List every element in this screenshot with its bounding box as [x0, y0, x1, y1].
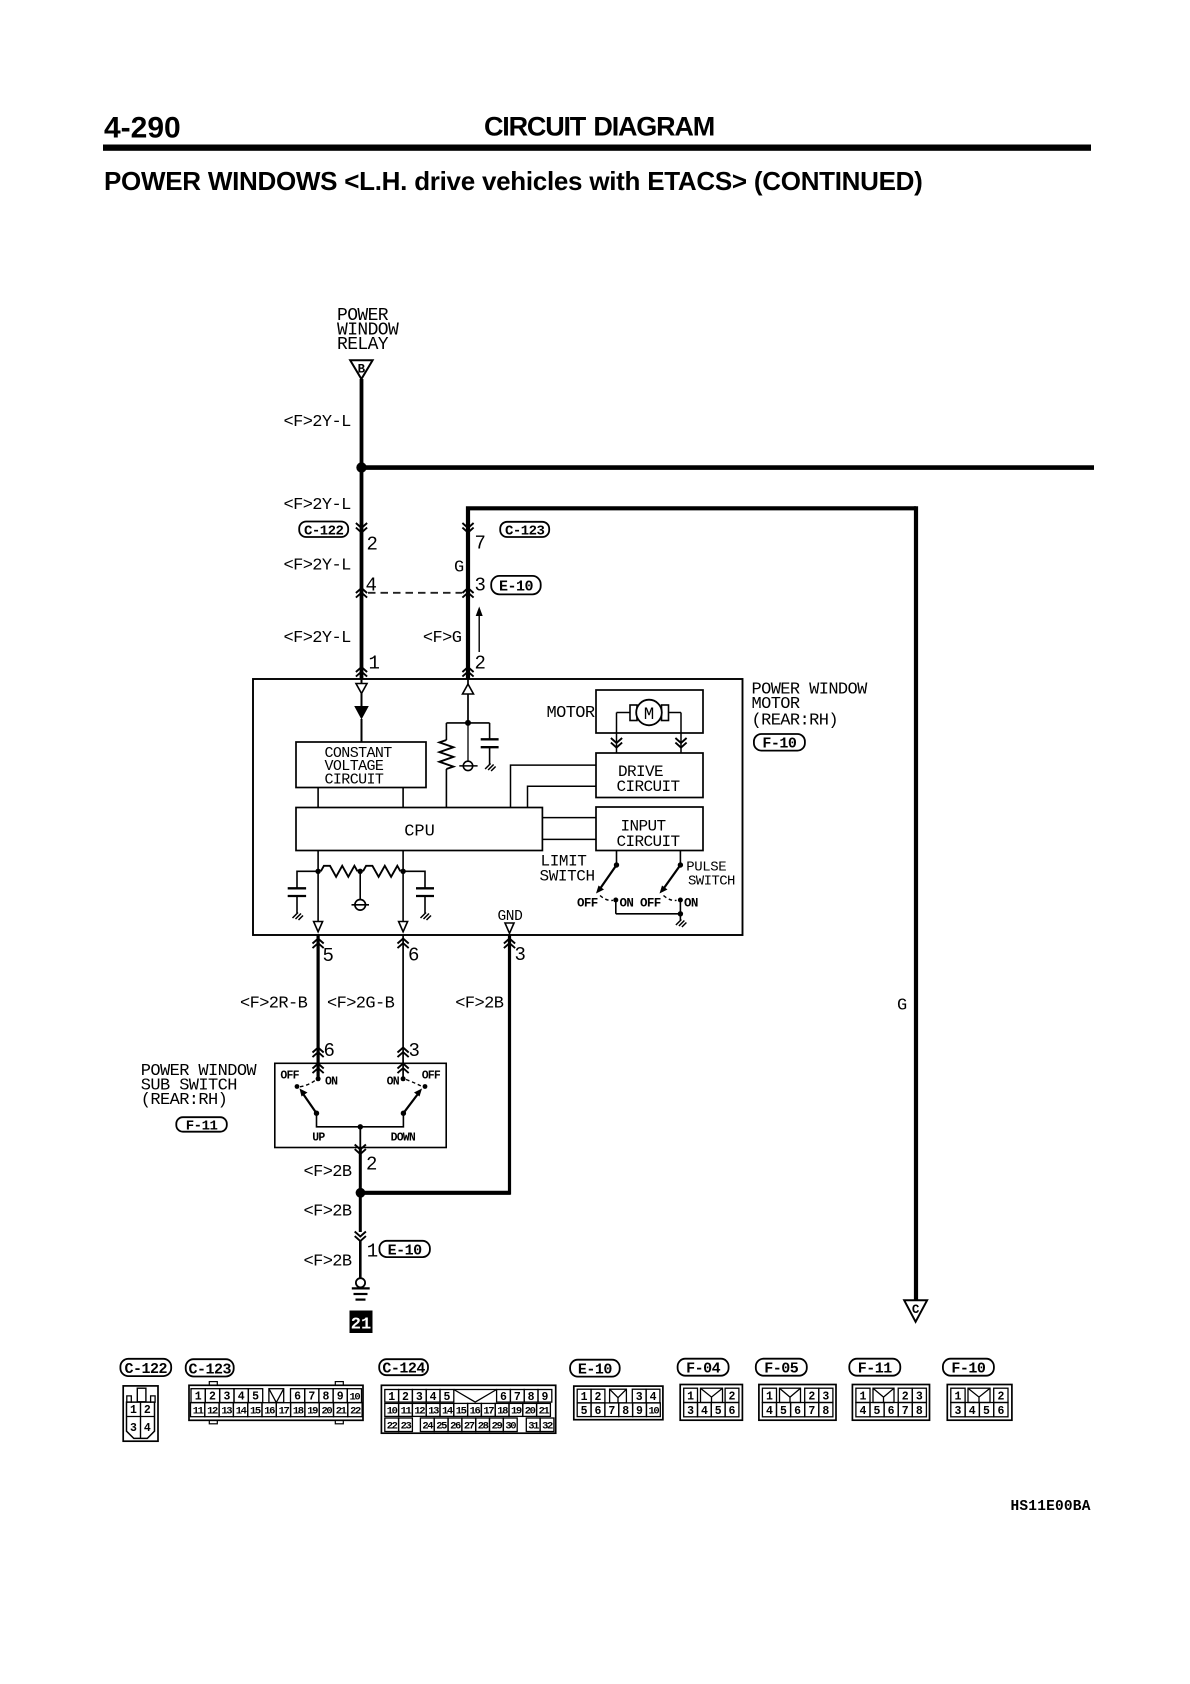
svg-text:5: 5 [715, 1405, 722, 1418]
connector F-04 pinout [680, 1385, 742, 1421]
connector C-122 label [299, 522, 348, 540]
wire CPU to drive 2 [528, 786, 597, 807]
svg-text:1: 1 [954, 1391, 961, 1404]
exit arrow pin5 [314, 922, 323, 932]
svg-text:19: 19 [307, 1406, 318, 1418]
svg-text:22: 22 [350, 1406, 361, 1418]
connector F-11 label [176, 1117, 227, 1134]
svg-text:<F>2Y-L: <F>2Y-L [284, 557, 352, 576]
label (F)2G-B [327, 995, 395, 1014]
svg-text:3: 3 [475, 575, 486, 597]
svg-text:8: 8 [528, 1391, 535, 1404]
svg-text:11: 11 [401, 1406, 412, 1418]
svg-text:4: 4 [238, 1391, 245, 1404]
terminal B triangle [350, 360, 372, 379]
wire CPU to input 2 [542, 838, 596, 840]
pin3 number [515, 944, 526, 966]
sub switch up contact node [316, 1076, 321, 1081]
power window motor unit box [253, 679, 743, 935]
connector C-123 label bottom [186, 1359, 234, 1378]
svg-text:C-122: C-122 [304, 523, 344, 539]
svg-text:28: 28 [478, 1421, 489, 1433]
terminal C triangle [904, 1300, 927, 1322]
svg-text:2: 2 [209, 1391, 216, 1404]
svg-text:24: 24 [422, 1421, 433, 1433]
svg-text:10: 10 [349, 1391, 360, 1403]
svg-text:16: 16 [470, 1406, 481, 1418]
node R/C [446, 720, 489, 726]
svg-text:4: 4 [701, 1405, 708, 1418]
svg-text:2: 2 [144, 1404, 151, 1417]
svg-text:1: 1 [130, 1404, 137, 1417]
sub switch pin6 marker [313, 1048, 324, 1074]
svg-text:21: 21 [539, 1406, 550, 1418]
power window relay label [337, 306, 399, 355]
entry arrow pin2 [463, 679, 474, 723]
sub switch down contact node [401, 1076, 406, 1081]
label (F)2B mid [304, 1203, 352, 1222]
drawing number [1011, 1499, 1091, 1515]
direction arrow up [476, 607, 483, 653]
wire 2R-B [317, 935, 320, 1079]
svg-text:7: 7 [308, 1391, 315, 1404]
motor M1 [617, 700, 682, 726]
CPU right lead [400, 851, 405, 922]
wire CPU to input 1 [542, 817, 596, 819]
pin6 marker [398, 939, 409, 949]
bus wire G top [468, 508, 916, 679]
svg-text:2: 2 [808, 1391, 815, 1404]
svg-text:B: B [358, 363, 366, 377]
motor leads [617, 713, 682, 754]
connector F-11 pinout [852, 1385, 929, 1421]
svg-text:C: C [912, 1303, 920, 1317]
label (F)2B upper [304, 1163, 352, 1182]
svg-text:15: 15 [250, 1406, 261, 1418]
svg-text:3: 3 [223, 1391, 230, 1404]
svg-text:26: 26 [450, 1421, 461, 1433]
sub switch output wire [359, 1127, 361, 1148]
sub switch pin3 marker [398, 1048, 409, 1074]
svg-text:2: 2 [997, 1391, 1004, 1404]
reference node circle [459, 723, 477, 771]
DOWN label [391, 1132, 416, 1145]
connector C-123 label [500, 522, 549, 540]
pin6 number [408, 945, 419, 967]
svg-text:32: 32 [542, 1421, 553, 1433]
svg-text:21: 21 [336, 1406, 347, 1418]
svg-text:1: 1 [369, 653, 380, 675]
svg-text:F-04: F-04 [686, 1361, 721, 1378]
sub switch OFF label left [280, 1070, 299, 1083]
svg-text:ON: ON [387, 1076, 400, 1089]
svg-text:2: 2 [475, 653, 486, 675]
svg-text:1: 1 [195, 1391, 202, 1404]
svg-text:OFF: OFF [640, 897, 661, 911]
svg-text:20: 20 [525, 1406, 536, 1418]
resistor R2 [321, 866, 358, 877]
svg-text:1: 1 [388, 1391, 395, 1404]
wire to body ground [359, 1241, 362, 1278]
pin2 marker below sub switch [355, 1145, 366, 1155]
dashed connector link [368, 592, 462, 594]
pin 2 [367, 534, 378, 556]
svg-text:6: 6 [794, 1405, 801, 1418]
svg-text:7: 7 [808, 1405, 815, 1418]
connector C-124 pinout [381, 1385, 555, 1433]
svg-text:6: 6 [729, 1405, 736, 1418]
pulse switch SW2 [660, 851, 684, 914]
motor lead markers [611, 738, 687, 748]
svg-text:22: 22 [387, 1421, 398, 1433]
svg-text:29: 29 [492, 1421, 503, 1433]
svg-text:<F>2R-B: <F>2R-B [240, 995, 308, 1014]
svg-text:6: 6 [294, 1391, 301, 1404]
svg-text:4: 4 [144, 1422, 151, 1435]
svg-text:<F>2B: <F>2B [455, 995, 503, 1014]
svg-text:F-10: F-10 [951, 1361, 986, 1378]
connector E-10 marker right [462, 588, 473, 598]
pin5 number [323, 945, 334, 967]
junction node 2B [356, 1188, 366, 1198]
svg-text:C-123: C-123 [505, 523, 545, 539]
connector F-10 label [754, 734, 805, 753]
sub switch box [275, 1063, 446, 1147]
pin 7 [475, 533, 486, 555]
svg-text:6: 6 [888, 1405, 895, 1418]
label G [454, 559, 464, 578]
svg-text:4: 4 [766, 1405, 773, 1418]
svg-text:8: 8 [916, 1405, 923, 1418]
svg-text:4: 4 [969, 1405, 976, 1418]
wire into constant voltage circuit [361, 679, 363, 742]
svg-text:G: G [897, 997, 907, 1016]
resistor R3 [358, 866, 401, 877]
svg-text:30: 30 [505, 1421, 516, 1433]
pin 2 motor [475, 653, 486, 675]
svg-text:<F>2Y-L: <F>2Y-L [284, 496, 352, 515]
svg-text:5: 5 [983, 1405, 990, 1418]
svg-text:3: 3 [130, 1422, 137, 1435]
header rule [103, 145, 1091, 151]
svg-text:G: G [454, 559, 464, 578]
svg-text:OFF: OFF [280, 1070, 299, 1083]
svg-text:6: 6 [595, 1405, 602, 1418]
connector E-10 label [491, 576, 541, 596]
connector E-10 pinout [574, 1386, 663, 1420]
svg-text:<F>2B: <F>2B [304, 1163, 352, 1182]
svg-text:HS11E00BA: HS11E00BA [1011, 1499, 1091, 1515]
wire 2B upper [359, 1148, 362, 1193]
constant voltage circuit box [296, 742, 426, 789]
svg-text:4-290: 4-290 [104, 112, 181, 145]
motor box [596, 690, 703, 733]
svg-text:F-11: F-11 [186, 1119, 218, 1135]
pulse switch OFF label [640, 897, 661, 911]
wire 2Y-L seg2 [360, 468, 364, 680]
sub switch ON label left [325, 1076, 338, 1089]
title POWER WINDOWS [104, 166, 923, 196]
svg-text:5: 5 [252, 1391, 259, 1404]
svg-text:6: 6 [408, 945, 419, 967]
box entry marker pin1 [356, 667, 367, 677]
label (F)2B bottom [304, 1253, 352, 1272]
svg-text:OFF: OFF [422, 1070, 441, 1083]
connector C-122 marker [356, 523, 367, 533]
svg-text:9: 9 [541, 1391, 548, 1404]
reference node circle 2 [352, 871, 370, 910]
right G bus down [914, 506, 918, 1300]
svg-text:4: 4 [859, 1405, 866, 1418]
svg-text:ON: ON [620, 897, 634, 911]
limit switch OFF label [577, 897, 598, 911]
svg-text:27: 27 [464, 1421, 475, 1433]
input circuit box [596, 807, 703, 851]
connector F-04 label bottom [678, 1359, 729, 1378]
svg-text:12: 12 [414, 1406, 425, 1418]
svg-text:9: 9 [337, 1391, 344, 1404]
connector C-123 pinout [189, 1382, 363, 1424]
label (F)G [423, 629, 462, 648]
connector C-122 pinout [123, 1386, 158, 1441]
connector F-05 pinout [759, 1385, 836, 1421]
svg-text:CIRCUIT DIAGRAM: CIRCUIT DIAGRAM [484, 112, 714, 142]
connector E-10 marker bottom [355, 1232, 366, 1242]
box entry marker pin2 [462, 667, 473, 677]
sub switch pin6 number [324, 1040, 335, 1062]
GND label [498, 909, 523, 925]
connector C-124 label bottom [379, 1359, 428, 1377]
svg-text:2: 2 [729, 1391, 736, 1404]
connector E-10 marker left [356, 588, 367, 598]
connector F-10 label bottom [943, 1359, 994, 1378]
svg-text:6: 6 [500, 1391, 507, 1404]
limit switch caption [540, 853, 595, 886]
exit arrow pin6 [399, 922, 408, 932]
svg-text:17: 17 [279, 1406, 290, 1418]
header CIRCUIT DIAGRAM [484, 112, 714, 142]
label (F)2R-B [240, 995, 308, 1014]
svg-text:7: 7 [475, 533, 486, 555]
pulse switch caption [686, 860, 735, 890]
wire 2B lower [359, 1193, 362, 1232]
bus wire to right edge [362, 465, 1095, 470]
connector F-05 label bottom [756, 1359, 807, 1378]
svg-text:(REAR:RH): (REAR:RH) [141, 1091, 227, 1110]
svg-text:5: 5 [323, 945, 334, 967]
svg-text:15: 15 [456, 1406, 467, 1418]
svg-text:ON: ON [325, 1076, 338, 1089]
power window motor caption [752, 681, 869, 731]
CPU box [296, 808, 542, 851]
svg-text:SWITCH: SWITCH [540, 868, 595, 886]
connector C-122 label bottom [120, 1359, 171, 1378]
connector F-10 pinout [947, 1385, 1012, 1421]
svg-text:<F>2G-B: <F>2G-B [327, 995, 395, 1014]
svg-text:2: 2 [902, 1391, 909, 1404]
svg-text:CIRCUIT: CIRCUIT [617, 778, 680, 796]
svg-text:7: 7 [608, 1405, 615, 1418]
svg-text:RELAY: RELAY [337, 335, 389, 355]
svg-text:F-10: F-10 [762, 736, 797, 753]
wire 2Y-L from relay [360, 379, 364, 468]
svg-text:OFF: OFF [577, 897, 598, 911]
svg-text:16: 16 [264, 1406, 275, 1418]
label (F)2Y-L seg2 [284, 496, 352, 515]
svg-text:10: 10 [648, 1406, 659, 1418]
svg-text:4: 4 [430, 1391, 437, 1404]
label (F)2B gnd [455, 995, 503, 1014]
svg-text:3: 3 [822, 1391, 829, 1404]
svg-text:18: 18 [293, 1406, 304, 1418]
exit arrow GND [505, 923, 514, 933]
svg-text:9: 9 [636, 1405, 643, 1418]
svg-text:<F>2Y-L: <F>2Y-L [284, 413, 352, 432]
svg-text:CIRCUIT: CIRCUIT [325, 772, 384, 789]
label (F)2Y-L seg4 [284, 629, 352, 648]
svg-text:6: 6 [997, 1405, 1004, 1418]
svg-text:11: 11 [193, 1406, 204, 1418]
svg-text:14: 14 [236, 1406, 247, 1418]
svg-text:F-11: F-11 [858, 1361, 893, 1378]
svg-text:<F>2Y-L: <F>2Y-L [284, 629, 352, 648]
pin5 marker [313, 939, 324, 949]
svg-text:CIRCUIT: CIRCUIT [617, 833, 680, 851]
wire 2B gnd [508, 935, 511, 1195]
svg-text:3: 3 [954, 1405, 961, 1418]
svg-text:8: 8 [323, 1391, 330, 1404]
svg-text:ON: ON [684, 897, 698, 911]
bus 2B to gnd wire [361, 1191, 511, 1195]
entry arrow pin1 [356, 684, 367, 694]
sub switch right arm [401, 1080, 428, 1116]
wires CVC to CPU [318, 788, 403, 808]
svg-text:3: 3 [409, 1040, 420, 1062]
motor caption [547, 704, 595, 723]
body ground symbol [352, 1278, 370, 1299]
svg-text:<F>2B: <F>2B [304, 1253, 352, 1272]
svg-text:5: 5 [581, 1405, 588, 1418]
sub switch OFF label right [422, 1070, 441, 1083]
CPU left lead [315, 851, 320, 922]
svg-text:20: 20 [321, 1406, 332, 1418]
svg-text:3: 3 [687, 1405, 694, 1418]
sub switch pin3 number [409, 1040, 420, 1062]
svg-text:(REAR:RH): (REAR:RH) [752, 712, 838, 731]
svg-text:<F>G: <F>G [423, 629, 462, 648]
chassis ground C1 [485, 764, 496, 772]
pulse switch ON label [684, 897, 698, 911]
pin2 number below sub switch [366, 1154, 377, 1176]
svg-text:1: 1 [687, 1391, 694, 1404]
svg-text:17: 17 [483, 1406, 494, 1418]
connector F-11 label bottom [849, 1359, 900, 1378]
svg-text:F-05: F-05 [764, 1361, 799, 1378]
label G right [897, 997, 907, 1016]
svg-text:7: 7 [902, 1405, 909, 1418]
svg-text:5: 5 [874, 1405, 881, 1418]
svg-text:C-124: C-124 [382, 1361, 425, 1378]
svg-text:10: 10 [387, 1406, 398, 1418]
svg-text:13: 13 [221, 1406, 232, 1418]
label (F)2Y-L seg1 [284, 413, 352, 432]
svg-text:31: 31 [528, 1421, 539, 1433]
page number 4-290 [104, 112, 181, 145]
svg-text:E-10: E-10 [578, 1362, 613, 1379]
svg-text:MOTOR: MOTOR [547, 704, 595, 723]
limit switch ON label [620, 897, 634, 911]
svg-text:<F>2B: <F>2B [304, 1203, 352, 1222]
svg-text:7: 7 [514, 1391, 521, 1404]
svg-text:CPU: CPU [404, 823, 435, 842]
pin3 marker [504, 939, 515, 949]
svg-text:13: 13 [428, 1406, 439, 1418]
switch common wire [616, 911, 683, 920]
svg-text:8: 8 [622, 1405, 629, 1418]
svg-text:3: 3 [416, 1391, 423, 1404]
capacitor C1 [481, 723, 499, 765]
ground ref 21 [350, 1311, 373, 1335]
capacitor C2 [288, 871, 318, 913]
capacitor C3 [403, 871, 434, 913]
chassis ground switches [676, 920, 687, 928]
svg-text:18: 18 [497, 1406, 508, 1418]
junction node [356, 462, 366, 472]
pin 4 [366, 575, 377, 597]
pin 1 [369, 653, 380, 675]
svg-text:5: 5 [780, 1405, 787, 1418]
wire 2G-B [402, 935, 404, 1079]
svg-text:1: 1 [766, 1391, 773, 1404]
svg-text:12: 12 [207, 1406, 218, 1418]
svg-text:2: 2 [366, 1154, 377, 1176]
svg-text:1: 1 [367, 1241, 378, 1263]
diode D1 [354, 706, 369, 720]
svg-text:3: 3 [515, 944, 526, 966]
wire CPU to drive 1 [511, 765, 597, 807]
connector E-10 label bottom [570, 1360, 620, 1379]
pin1 number bottom [367, 1241, 378, 1263]
limit switch SW1 [596, 851, 619, 914]
sub switch common wires [317, 1113, 404, 1129]
svg-text:E-10: E-10 [499, 579, 534, 596]
connector E-10 label bottom [379, 1241, 430, 1260]
svg-text:2: 2 [367, 534, 378, 556]
svg-text:8: 8 [822, 1405, 829, 1418]
sub switch ON label right [387, 1076, 400, 1089]
svg-text:23: 23 [401, 1421, 412, 1433]
pin 3 [475, 575, 486, 597]
svg-text:3: 3 [916, 1391, 923, 1404]
svg-text:UP: UP [312, 1132, 325, 1145]
svg-text:14: 14 [442, 1406, 453, 1418]
chassis ground C2 [293, 913, 304, 921]
svg-text:E-10: E-10 [388, 1242, 423, 1259]
connector C-123 marker [462, 523, 473, 533]
svg-text:21: 21 [351, 1316, 371, 1335]
svg-text:19: 19 [511, 1406, 522, 1418]
svg-text:2: 2 [402, 1391, 409, 1404]
svg-text:5: 5 [443, 1391, 450, 1404]
svg-text:C-122: C-122 [125, 1361, 168, 1378]
svg-text:SWITCH: SWITCH [688, 874, 735, 890]
drive circuit box [596, 753, 703, 798]
label (F)2Y-L seg3 [284, 557, 352, 576]
svg-text:POWER WINDOWS <L.H. drive vehi: POWER WINDOWS <L.H. drive vehicles with … [104, 166, 923, 196]
sub switch left arm [295, 1081, 320, 1116]
svg-text:1: 1 [859, 1391, 866, 1404]
chassis ground C3 [421, 913, 432, 921]
